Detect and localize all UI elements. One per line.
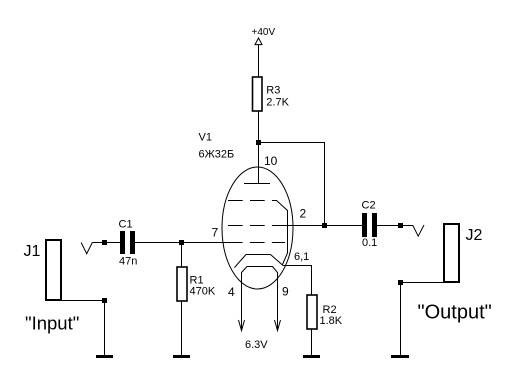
output probe V mark <box>413 225 424 236</box>
node input junction dot <box>102 240 107 245</box>
ground for R2 <box>303 355 320 358</box>
svg-text:0.1: 0.1 <box>362 237 377 249</box>
wire grid node down to R1 <box>181 243 183 267</box>
wire R2 bottom to ground <box>311 330 313 356</box>
svg-text:4: 4 <box>228 285 235 299</box>
capacitor C1 plate left <box>120 231 125 254</box>
capacitor C2 plate left <box>362 213 367 237</box>
wire J2 sleeve to ground node <box>401 282 444 284</box>
wire R3 bottom to anode plate <box>258 112 260 185</box>
wire C2 to output V <box>377 225 413 227</box>
ground for J1 <box>96 355 113 358</box>
svg-text:6,1: 6,1 <box>294 251 309 263</box>
svg-text:6Ж32Б: 6Ж32Б <box>199 149 235 161</box>
capacitor C1 plate right <box>130 231 135 254</box>
svg-text:47n: 47n <box>119 256 137 268</box>
svg-text:6.3V: 6.3V <box>245 339 268 351</box>
grid g1 dashed electrode <box>250 242 285 244</box>
ground for J2 <box>391 355 409 358</box>
tube V1 envelope ellipse <box>222 167 293 289</box>
input probe V mark <box>81 243 92 254</box>
grid g2 dashed electrode <box>228 225 265 227</box>
node J2 ground junction dot <box>398 280 403 285</box>
svg-text:C1: C1 <box>119 219 133 231</box>
resistor R3 <box>253 77 263 111</box>
resistor R1 <box>177 267 187 301</box>
grid g3 dashed electrode <box>228 200 265 202</box>
wire pin 2 screen grid to C2 <box>272 225 362 227</box>
svg-text:J2: J2 <box>466 227 483 244</box>
capacitor C2 plate right <box>372 213 377 237</box>
connector J1 <box>46 240 61 300</box>
svg-text:J1: J1 <box>24 243 41 260</box>
svg-text:470K: 470K <box>190 286 216 298</box>
power symbol +40V triangle <box>255 38 262 45</box>
wire anode junction to right <box>259 142 326 144</box>
node screen/output junction dot <box>322 223 327 228</box>
svg-text:1.8K: 1.8K <box>320 315 343 327</box>
wire C1 to grid pin 7 <box>135 242 243 244</box>
svg-text:R1: R1 <box>190 274 204 286</box>
wire R1 bottom to ground <box>181 301 183 356</box>
node grid junction dot <box>179 240 184 245</box>
ground for R1 <box>173 355 190 358</box>
wire +40V to R3 top <box>258 45 260 77</box>
node anode junction dot <box>256 140 261 145</box>
heater filament of V1 <box>242 267 278 332</box>
wire cathode pin 6,1 to R2 <box>283 266 312 296</box>
connector J2 <box>444 224 459 282</box>
wire J1 sleeve to ground node <box>61 300 105 302</box>
wire J1 node down to ground <box>104 301 106 356</box>
node output junction dot <box>398 223 403 228</box>
svg-text:2: 2 <box>300 207 307 221</box>
resistor R2 <box>307 295 317 329</box>
svg-text:V1: V1 <box>199 132 212 144</box>
node J1 ground junction dot <box>102 298 107 303</box>
heater arrow pin 9 <box>275 320 281 331</box>
wire input V to C1 <box>92 242 120 244</box>
svg-text:"Output": "Output" <box>418 302 492 324</box>
svg-text:9: 9 <box>282 285 289 299</box>
svg-text:C2: C2 <box>362 200 376 212</box>
anode plate of V1 <box>244 183 270 185</box>
wire J2 node down to ground <box>400 283 402 356</box>
wire g3 internal connection to cathode <box>272 201 288 265</box>
svg-text:R3: R3 <box>266 85 280 97</box>
svg-text:10: 10 <box>264 154 278 168</box>
svg-text:7: 7 <box>212 226 219 240</box>
svg-text:+40V: +40V <box>252 27 276 38</box>
heater arrow pin 4 <box>239 320 245 331</box>
svg-text:2.7K: 2.7K <box>266 96 289 108</box>
svg-text:"Input": "Input" <box>25 312 79 333</box>
cathode of V1 <box>235 255 284 268</box>
wire down to screen-grid node <box>324 143 326 227</box>
